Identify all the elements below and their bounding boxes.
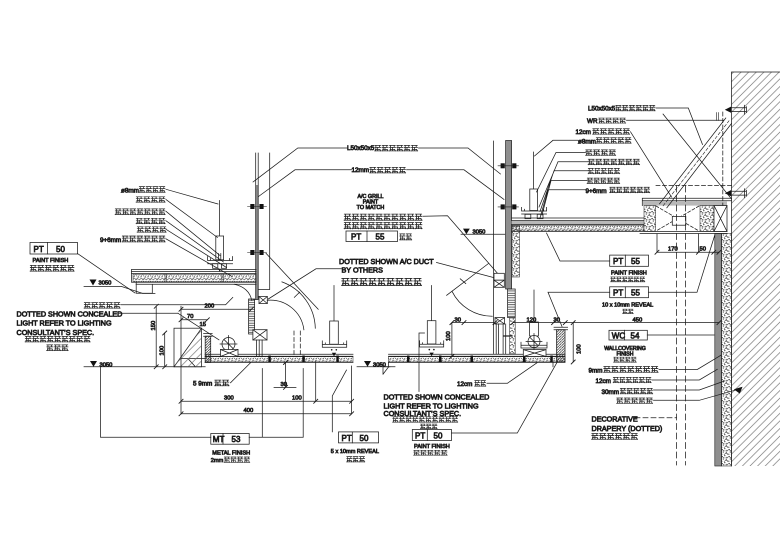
svg-text:PAINT FINISH: PAINT FINISH <box>33 258 69 264</box>
svg-text:2mm: 2mm <box>211 458 224 464</box>
svg-text:PAINT FINISH: PAINT FINISH <box>611 271 647 277</box>
svg-text:9+6mm: 9+6mm <box>100 237 121 244</box>
svg-text:30: 30 <box>455 317 461 323</box>
svg-text:200: 200 <box>205 303 215 309</box>
svg-text:WR: WR <box>587 118 598 125</box>
svg-text:100: 100 <box>292 396 302 402</box>
svg-text:53: 53 <box>232 435 241 444</box>
svg-text:PT: PT <box>34 245 44 254</box>
svg-text:PT: PT <box>613 289 623 298</box>
svg-text:DECORATIVE: DECORATIVE <box>592 414 638 423</box>
svg-text:12cm: 12cm <box>457 381 472 388</box>
svg-text:L50x50x5: L50x50x5 <box>347 145 375 152</box>
svg-text:10 x 10mm REVEAL: 10 x 10mm REVEAL <box>602 303 653 309</box>
svg-text:30mm: 30mm <box>602 389 620 396</box>
svg-text:PT: PT <box>342 434 352 443</box>
svg-text:ø8mm: ø8mm <box>578 138 596 145</box>
svg-text:55: 55 <box>631 289 640 298</box>
svg-text:100: 100 <box>159 346 165 356</box>
svg-text:PT: PT <box>415 431 425 440</box>
svg-text:12cm: 12cm <box>576 129 591 136</box>
svg-text:55: 55 <box>631 257 640 266</box>
svg-text:9+6mm: 9+6mm <box>586 188 607 195</box>
svg-text:12mm: 12mm <box>352 167 370 174</box>
svg-text:ø8mm: ø8mm <box>121 188 139 195</box>
svg-text:TO MATCH: TO MATCH <box>357 205 385 211</box>
svg-text:450: 450 <box>633 317 643 323</box>
svg-text:300: 300 <box>224 396 234 402</box>
svg-text:PT: PT <box>613 257 623 266</box>
svg-text:3050: 3050 <box>100 362 113 368</box>
svg-text:50: 50 <box>56 245 65 254</box>
svg-text:FINISH: FINISH <box>616 352 633 358</box>
svg-text:CONSULTANT’S SPEC.: CONSULTANT’S SPEC. <box>17 328 95 337</box>
svg-text:54: 54 <box>631 331 640 340</box>
svg-text:150: 150 <box>151 321 157 331</box>
svg-text:WC: WC <box>612 331 626 340</box>
svg-text:MT: MT <box>213 435 225 444</box>
svg-text:100: 100 <box>446 331 452 341</box>
svg-text:BY OTHERS: BY OTHERS <box>342 265 384 274</box>
svg-text:9mm: 9mm <box>589 367 603 374</box>
svg-text:100: 100 <box>577 344 583 354</box>
svg-text:LIGHT REFER TO LIGHTING: LIGHT REFER TO LIGHTING <box>17 318 112 327</box>
svg-text:3050: 3050 <box>473 230 486 236</box>
svg-text:3050: 3050 <box>373 362 386 368</box>
svg-text:DRAPERY (DOTTED): DRAPERY (DOTTED) <box>592 424 663 433</box>
svg-text:PT: PT <box>351 232 361 241</box>
svg-text:55: 55 <box>376 232 385 241</box>
svg-text:PAINT FINISH: PAINT FINISH <box>414 444 450 450</box>
svg-text:15: 15 <box>200 322 206 328</box>
svg-text:3050: 3050 <box>99 281 112 287</box>
svg-text:400: 400 <box>244 408 254 414</box>
svg-text:DOTTED SHOWN CONCEALED: DOTTED SHOWN CONCEALED <box>17 309 123 318</box>
svg-text:L50x50x5: L50x50x5 <box>588 105 616 112</box>
svg-text:5 x 10mm REVEAL: 5 x 10mm REVEAL <box>331 449 379 455</box>
svg-text:METAL FINISH: METAL FINISH <box>212 450 250 456</box>
svg-text:50: 50 <box>434 431 443 440</box>
svg-text:5 9mm: 5 9mm <box>193 381 212 388</box>
svg-text:12cm: 12cm <box>596 378 611 385</box>
svg-text:120: 120 <box>527 317 537 323</box>
svg-text:DOTTED SHOWN CONCEALED: DOTTED SHOWN CONCEALED <box>384 392 490 401</box>
svg-text:50: 50 <box>360 434 369 443</box>
